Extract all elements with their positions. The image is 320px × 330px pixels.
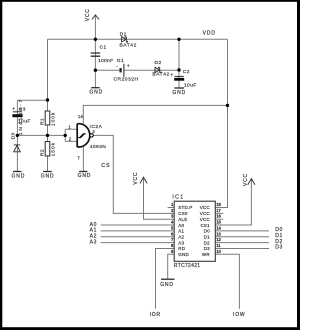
wire C2 branch — [178, 39, 180, 88]
svg-text:100k: 100k — [51, 112, 57, 126]
svg-text:CS: CS — [101, 163, 111, 169]
svg-text:100nF: 100nF — [98, 58, 113, 64]
pin stub 1 — [168, 207, 175, 209]
wire WR to IOW — [215, 254, 239, 308]
svg-text:VCC: VCC — [85, 8, 91, 21]
wire left vertical R1/R2 column — [47, 39, 49, 171]
svg-text:VDD: VDD — [203, 30, 216, 36]
wire battery row — [95, 69, 179, 71]
wire top rail VCC/VDD — [48, 38, 228, 40]
IC1 left pin labels — [178, 205, 192, 257]
svg-text:GND: GND — [178, 252, 189, 257]
svg-text:WR: WR — [202, 252, 210, 257]
junction top rail / C2 branch — [177, 38, 180, 41]
capacitor C2 (electrolytic) — [175, 75, 184, 77]
wire C3 top feed — [17, 100, 47, 171]
wire VCC2 stem to ALE — [144, 177, 175, 219]
ground (D3) — [13, 171, 22, 173]
wire D3 — [215, 247, 269, 249]
svg-text:12: 12 — [216, 237, 221, 242]
wire D1 — [215, 236, 269, 238]
wire NAND output to CS0 — [93, 135, 174, 213]
IC1 left pin numbers — [171, 202, 174, 254]
pin stub 17 — [215, 212, 223, 214]
VCC arrow 3 — [248, 179, 255, 185]
wire A1 — [101, 230, 175, 232]
svg-text:RTC72421: RTC72421 — [174, 263, 201, 269]
junction VCC / C1 / top rail — [94, 38, 97, 41]
IC1 right pin numbers — [216, 202, 221, 254]
svg-text:VCC: VCC — [133, 172, 139, 185]
svg-text:STD.P: STD.P — [178, 205, 192, 210]
svg-text:D3: D3 — [11, 133, 17, 140]
wire D0 — [215, 230, 269, 232]
diode D1 — [122, 37, 128, 42]
svg-text:A3: A3 — [178, 240, 184, 245]
wire GND pin9 — [168, 254, 175, 279]
svg-text:+: + — [170, 72, 173, 78]
svg-text:D2: D2 — [204, 240, 210, 245]
svg-text:14: 14 — [78, 114, 83, 119]
svg-text:C2: C2 — [183, 69, 190, 75]
ground (gate pin7) — [79, 171, 87, 173]
svg-text:CS0: CS0 — [178, 211, 188, 216]
wire pin14 rail — [83, 105, 227, 123]
junction R1 / R2 / wire — [46, 134, 49, 137]
svg-text:GND: GND — [172, 90, 186, 96]
svg-text:A1: A1 — [178, 229, 184, 234]
svg-text:RD: RD — [178, 246, 185, 251]
svg-text:A2: A2 — [178, 234, 184, 239]
svg-text:4093N: 4093N — [90, 144, 106, 150]
svg-text:16: 16 — [216, 214, 221, 219]
wire A3 — [101, 242, 175, 244]
ground (R2) — [43, 171, 52, 173]
ground (C2) — [174, 87, 184, 89]
svg-text:D2: D2 — [155, 60, 162, 66]
resistor R2 — [45, 142, 50, 156]
junction C1 / battery wire — [94, 69, 97, 72]
svg-text:VCC: VCC — [200, 217, 211, 222]
junction R1 top / C3 wire — [46, 98, 49, 101]
svg-text:14: 14 — [216, 225, 221, 230]
resistor R1 — [45, 111, 50, 125]
diode D2 — [155, 67, 161, 72]
svg-text:D1: D1 — [120, 31, 127, 37]
wire VCC1 stem — [94, 15, 96, 39]
svg-text:CS1: CS1 — [200, 223, 210, 228]
wire mid net to NAND inputs — [17, 129, 77, 141]
svg-text:GND: GND — [78, 173, 92, 179]
svg-text:VCC: VCC — [243, 173, 249, 186]
svg-text:VCC: VCC — [200, 211, 211, 216]
wire D2 — [215, 242, 269, 244]
wire VDD right vertical to pin18 — [215, 39, 227, 207]
junction C3 / D3 / wire — [16, 134, 19, 137]
wire A2 — [101, 236, 175, 238]
svg-text:D3: D3 — [204, 246, 210, 251]
svg-text:A0: A0 — [178, 223, 184, 228]
junction NAND input tie — [63, 134, 66, 137]
svg-text:BAT42: BAT42 — [152, 72, 169, 78]
op-amp style NAND gate IC2A 4093N — [77, 124, 93, 147]
svg-text:C1: C1 — [100, 45, 107, 51]
svg-text:150k: 150k — [51, 142, 57, 156]
svg-text:IOW: IOW — [233, 312, 245, 318]
svg-text:+: + — [127, 64, 130, 70]
svg-text:+: + — [12, 107, 15, 113]
svg-text:13: 13 — [216, 231, 221, 236]
svg-text:R2: R2 — [39, 149, 45, 156]
svg-text:GND: GND — [89, 90, 103, 96]
pin stub 16 — [215, 218, 223, 220]
IC1 right pin labels — [200, 205, 211, 257]
capacitor C3 (electrolytic) — [13, 111, 22, 113]
junction D2 / C2 branch — [177, 68, 180, 71]
svg-text:GND: GND — [12, 174, 26, 180]
svg-text:CR2032H: CR2032H — [114, 76, 139, 82]
svg-text:GND: GND — [41, 174, 55, 180]
battery G1 — [121, 64, 124, 77]
wire RD to IOR — [156, 248, 175, 308]
wire C1 branch — [94, 39, 96, 87]
svg-text:D3: D3 — [275, 245, 283, 251]
ground (C1) — [91, 87, 100, 89]
svg-text:BAT42: BAT42 — [120, 42, 137, 48]
svg-text:11: 11 — [216, 243, 221, 248]
capacitor C1 — [91, 53, 101, 56]
junction pin14 rail / VDD vertical — [226, 104, 229, 107]
wire VCC3 stem to CS1 — [215, 179, 251, 225]
svg-text:D0: D0 — [204, 229, 210, 234]
svg-text:D1: D1 — [204, 234, 210, 239]
svg-text:17: 17 — [216, 208, 221, 213]
VCC arrow 2 — [140, 177, 147, 183]
svg-text:IC1: IC1 — [172, 195, 184, 201]
svg-text:ALE: ALE — [178, 217, 187, 222]
svg-text:18: 18 — [216, 202, 221, 207]
svg-text:1N4148-7: 1N4148-7 — [18, 98, 24, 135]
wire pin7 to gnd — [82, 147, 84, 172]
diode D3 — [14, 145, 21, 152]
VCC arrow 1 — [92, 15, 99, 20]
svg-text:10: 10 — [216, 249, 221, 254]
svg-text:VCC: VCC — [200, 205, 211, 210]
svg-text:G1: G1 — [117, 58, 125, 64]
svg-text:A3: A3 — [90, 239, 98, 245]
svg-text:10uF: 10uF — [184, 83, 197, 89]
svg-text:GND: GND — [160, 282, 174, 288]
svg-text:IOR: IOR — [150, 312, 161, 318]
svg-text:15: 15 — [216, 220, 221, 225]
wire A0 — [101, 224, 175, 226]
ground (IC1 pin9) — [161, 278, 175, 280]
svg-text:R1: R1 — [39, 118, 45, 125]
IC U1 RTC72421 box — [174, 201, 215, 261]
